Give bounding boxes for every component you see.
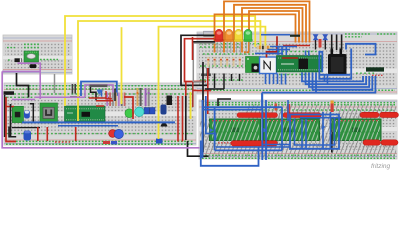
camera module on BB3 <box>246 57 261 73</box>
grey window frame wire <box>193 43 215 82</box>
blue cap beside G1 <box>24 110 30 118</box>
small blue parts BB2 bottom <box>156 139 163 144</box>
blue cap on BB2 <box>161 105 167 115</box>
rtc module on BB1 <box>24 51 39 62</box>
blue horizontal across gap <box>300 117 341 119</box>
black verticals BB3 bottom <box>215 74 240 90</box>
orange wire O3 <box>242 8 303 53</box>
orange wire O2 <box>234 5 306 53</box>
breadboard BB1 (top-left small) <box>3 35 72 74</box>
red bar bottom-left on BB4 <box>231 141 278 146</box>
black corner under BB1 <box>17 73 29 98</box>
black bottom BB2 wire <box>9 127 16 137</box>
breadboard BB2 (left long) <box>4 83 196 145</box>
black jumper top right <box>290 35 300 37</box>
black legs of bowtie caps <box>316 40 326 50</box>
black wire left column <box>10 104 12 137</box>
blue horizontal connect loops <box>262 144 290 146</box>
yellow wire Y4 <box>121 27 123 104</box>
orange wire O4 <box>244 11 299 52</box>
red stub BB2 left <box>6 106 14 108</box>
black horizontal BB3 bottom <box>205 88 224 90</box>
matrix module M1 on BB4 <box>200 105 330 158</box>
orange wire O1 <box>224 1 310 52</box>
blue trim pot <box>97 90 104 97</box>
red wire mid BB2 <box>124 97 133 119</box>
blue bundle 5 <box>316 73 375 93</box>
capacitor on BB1 <box>30 64 37 68</box>
red wire under pot <box>89 97 110 99</box>
blue left loop BB4 <box>202 100 204 158</box>
red jumper on nano <box>282 57 298 59</box>
electrolytic cap on BB2 bottom-left <box>24 131 32 141</box>
red window frame wire <box>185 39 215 82</box>
black bar top rail left <box>4 91 15 95</box>
breadboard BB4 (bottom wide) <box>199 100 397 159</box>
red bar top-mid on BB4 <box>283 113 321 118</box>
smd bar on BB3 right <box>366 67 384 71</box>
blue bundle 4 <box>313 73 373 90</box>
resistors under LEDs on BB3 <box>207 57 241 67</box>
black bracket component <box>30 104 34 122</box>
red horizontal BB3 bottom <box>193 90 211 92</box>
yellow wire Y2 <box>78 21 260 121</box>
module G1 on BB2 <box>12 106 23 122</box>
red LED on BB2 bottom <box>109 130 117 138</box>
blue bundle 2 <box>306 73 367 85</box>
blue horizontal BB2 <box>22 121 175 123</box>
crystal bars left <box>72 84 74 94</box>
black switch pin wires <box>332 35 342 51</box>
red wire left column <box>6 97 16 142</box>
black wire from grey bar <box>91 87 97 100</box>
transistor on BB2 <box>161 123 168 127</box>
blue stubs nano top right <box>306 51 309 57</box>
red resistor vertical on BB3 <box>319 39 322 48</box>
red verticals BB2 <box>38 96 183 142</box>
red verticals below window <box>185 82 187 108</box>
LED green on BB3 <box>244 29 253 53</box>
blue horizontals BB4 top <box>203 107 282 109</box>
svg-text:fritzing: fritzing <box>371 163 391 170</box>
LED orange on BB3 <box>225 29 234 53</box>
grey bar component <box>90 85 108 88</box>
yellow wire Y5 <box>190 92 192 119</box>
pin hatch gap M2-M3 <box>320 119 333 141</box>
diode on BB1 <box>15 58 23 62</box>
breadboard BB3 (top middle-right wide) <box>197 32 397 94</box>
red resistor 2 on BB4 top <box>287 104 290 113</box>
black wire k2 <box>193 41 216 43</box>
blue drops under ir <box>266 74 286 85</box>
module G2 on BB2 <box>40 103 58 123</box>
red bar bottom-right on BB4 <box>363 140 398 145</box>
black horizontal BB2 <box>12 127 40 129</box>
blue verticals mid BB4 <box>302 119 306 149</box>
purple frame wire around pot <box>85 85 113 97</box>
black stub above resistors <box>114 89 116 102</box>
horizontal resistor right <box>257 46 273 50</box>
arduino nano on BB3 <box>277 56 323 73</box>
blue wire around switch <box>319 49 351 79</box>
blue wires nano top <box>270 47 297 56</box>
purple wire box top <box>2 70 40 72</box>
blue right loop BB4 <box>290 115 339 149</box>
red wire to nano left <box>267 36 278 57</box>
blue frame wire around pot <box>81 82 117 97</box>
blue bottom loop BB4 <box>201 141 259 166</box>
purple wire cap link <box>18 62 42 64</box>
red stubs right of nano <box>96 101 113 106</box>
purple horizontal BB2 top <box>12 97 85 99</box>
purple drop to BB2 <box>39 63 41 99</box>
black window frame wire <box>181 35 215 85</box>
matrix module M2 on BB4 <box>264 119 320 141</box>
trimmer pots on BB2 <box>144 108 155 115</box>
red corner mid BB2 <box>106 91 112 99</box>
black corner bottom gap <box>188 141 209 156</box>
push switch (black) on BB3 <box>328 49 347 75</box>
blue wire over switch <box>346 44 376 55</box>
blue vertical BB4 mid <box>287 100 289 121</box>
LED yellow on BB3 <box>234 29 243 53</box>
blue wire under switch <box>320 74 350 76</box>
blue thick vertical BB4 <box>262 94 266 160</box>
black component BB2 <box>167 96 173 106</box>
purple frame wire <box>2 71 199 147</box>
red horizontal nano right <box>283 45 310 47</box>
cap blue bowtie 1 on BB3 <box>313 34 319 40</box>
black L on BB4 top <box>218 99 231 106</box>
red wire BB3-BB4 <box>207 68 209 114</box>
black wire BB4 right module <box>331 130 333 153</box>
red bar top-left on BB4 <box>237 113 278 118</box>
piezo on BB3 <box>204 31 215 36</box>
blue verticals gap M2-M3 <box>323 112 331 148</box>
red vertical BB3 left <box>192 37 194 60</box>
blue wire top rail <box>261 34 290 36</box>
matrix module M3 on BB4 <box>313 105 396 158</box>
yellow wire Y3 <box>159 27 266 139</box>
cyan LED on BB2 <box>135 107 144 116</box>
orange wire O5 <box>215 14 296 52</box>
blue wire above ir <box>255 50 290 54</box>
nano board on BB2 <box>65 106 106 122</box>
jumper bar on BB3 channel <box>201 74 211 77</box>
black wire left of pot <box>70 96 80 98</box>
grey wire from BB1 to BB2 <box>54 74 56 93</box>
blue long horizontal to BB4 <box>262 93 316 108</box>
red resistor on BB4 top <box>331 101 334 113</box>
blue bundle nano to BB3 right 1 <box>302 73 363 82</box>
ir receiver (blue frame) on BB3 <box>260 57 277 74</box>
blue drops from switch <box>325 74 328 84</box>
blue LED on BB2 bottom <box>114 129 123 138</box>
red bar top-right on BB4 <box>360 112 399 117</box>
blue bundle 3 <box>309 73 369 88</box>
green LED on BB2 <box>125 109 134 122</box>
blue corner BB2 mid <box>101 91 103 97</box>
resistor cluster 2 on BB2 <box>137 88 150 106</box>
black wire from BB3 down to BB4 <box>202 62 204 153</box>
cap blue bowtie 2 on BB3 <box>322 34 328 40</box>
red stub BB4 top <box>275 104 278 111</box>
resistor cluster 1 on BB2 <box>106 93 125 107</box>
LED red on BB3 <box>215 29 224 53</box>
yellow wire Y1 <box>65 16 255 106</box>
